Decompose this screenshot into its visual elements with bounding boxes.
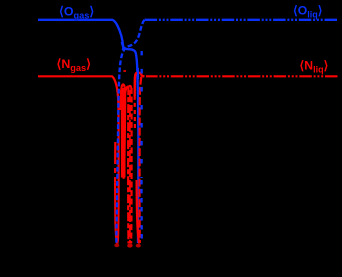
red well3 middle filler [129, 90, 131, 243]
red dashed hump + dive [135, 73, 145, 96]
blue solid gas level + steep descent to cusp [38, 20, 123, 48]
cusp knot [122, 42, 124, 50]
red dashed well3 right wall [130, 88, 133, 244]
blue dashed vertical B3 lower [140, 180, 143, 243]
red solid well2 body fill [121, 88, 126, 178]
blue dashed arc + left descent through cusp [116, 20, 144, 243]
red well3 top arch [128, 86, 131, 89]
red dashed S5 drifting wall [140, 77, 142, 243]
red well bottom tips [114, 243, 119, 247]
red dashed liq level (right) [146, 75, 338, 77]
red solid barrier arch well1-well2 [121, 84, 126, 178]
red solid well1 left wall (lower part) [115, 142, 117, 244]
red dashed hump-left wall continuation [134, 96, 136, 128]
small red dash above level [123, 70, 126, 72]
blue dashed liq level (right) [145, 19, 338, 21]
blue solid step + right well wall [123, 48, 138, 244]
blue solid wall overdraw at hump crossing [137, 68, 139, 79]
red dashed well3 left wall [127, 86, 130, 243]
red arch between well2 and well3 [125, 86, 129, 98]
red solid bottom wall under blue (S4) [137, 180, 140, 244]
red solid gas level + descent = well1 main wall [38, 76, 119, 244]
blue dashed vertical B3 [140, 51, 143, 178]
